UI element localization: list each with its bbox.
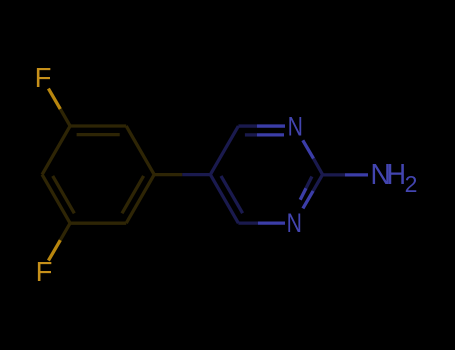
nitrogen label N3 — [287, 209, 302, 239]
wire C4'-C5' (D-E) — [42, 175, 70, 224]
fluorine label F2 — [36, 256, 53, 287]
wire biaryl bond pyrimidine half — [182, 173, 210, 176]
wire N1-C2 nitrogen half — [303, 140, 314, 158]
wire N1-C2 carbon half — [314, 159, 323, 175]
wire F1 bond fluorine half — [48, 89, 60, 109]
wire biaryl bond phenyl half — [154, 173, 182, 176]
amine label NH2 subscript 2 — [405, 171, 418, 197]
svg-text:H: H — [387, 158, 407, 190]
wire C2'-C3' (B-C) — [70, 124, 126, 127]
svg-text:F: F — [36, 256, 53, 287]
wire C2=N3 carbon half — [313, 175, 322, 191]
double bond inner line D-E — [53, 176, 75, 213]
double bond inner line B-C — [77, 133, 120, 136]
svg-text:2: 2 — [405, 171, 418, 197]
fluorine bond bright halves — [48, 89, 60, 261]
wire F2-C5' bond carbon half — [59, 223, 70, 242]
wire C2-NH2 nitrogen half — [345, 173, 368, 176]
double bond inner line C2=N3 nitrogen half — [300, 188, 306, 200]
wire C6=N1 carbon half — [238, 124, 257, 127]
svg-text:N: N — [287, 209, 302, 239]
wire C5'-C6' (E-G) — [70, 222, 126, 225]
double bond inner line C6=N1 nitrogen half — [257, 133, 284, 136]
double bond inner line G-A — [122, 176, 144, 213]
wire F2 bond fluorine half — [48, 240, 60, 260]
wire C2=N3 nitrogen half — [303, 191, 313, 209]
amine label NH2 H — [387, 158, 407, 190]
wire C6'-C1' (G-A) — [126, 175, 154, 224]
nitrogen label N1 — [288, 112, 303, 142]
wire C6=N1 nitrogen half — [257, 124, 285, 127]
svg-text:N: N — [288, 112, 303, 142]
wire C1'-C2' (A-B) — [126, 126, 154, 175]
wire C2-NH2 carbon half — [323, 173, 345, 176]
benzene ring (3,5-difluorophenyl) dark carbon bonds — [42, 107, 182, 243]
atom labels — [35, 62, 418, 287]
fluorine label F1 — [35, 62, 52, 93]
wire F1-C3' bond carbon half — [59, 107, 70, 126]
wire C3'-C4' (C-D) — [42, 126, 70, 175]
double bond inner line C6=N1 carbon half — [245, 133, 257, 136]
wire C4-C5 — [210, 175, 238, 224]
double bond inner line C2=N3 carbon half — [306, 177, 312, 189]
pyrimidine ring dark carbon bonds — [182, 126, 345, 223]
svg-text:F: F — [35, 62, 52, 93]
amine label NH2 N — [370, 159, 391, 191]
wire C5-C6 — [210, 126, 238, 175]
wire C4-N3 carbon half — [238, 221, 258, 224]
wire C4-N3 nitrogen half — [258, 221, 285, 224]
double bond inner line C5-C4 — [221, 176, 243, 213]
pyrimidine bright nitrogen bond halves — [257, 126, 368, 223]
